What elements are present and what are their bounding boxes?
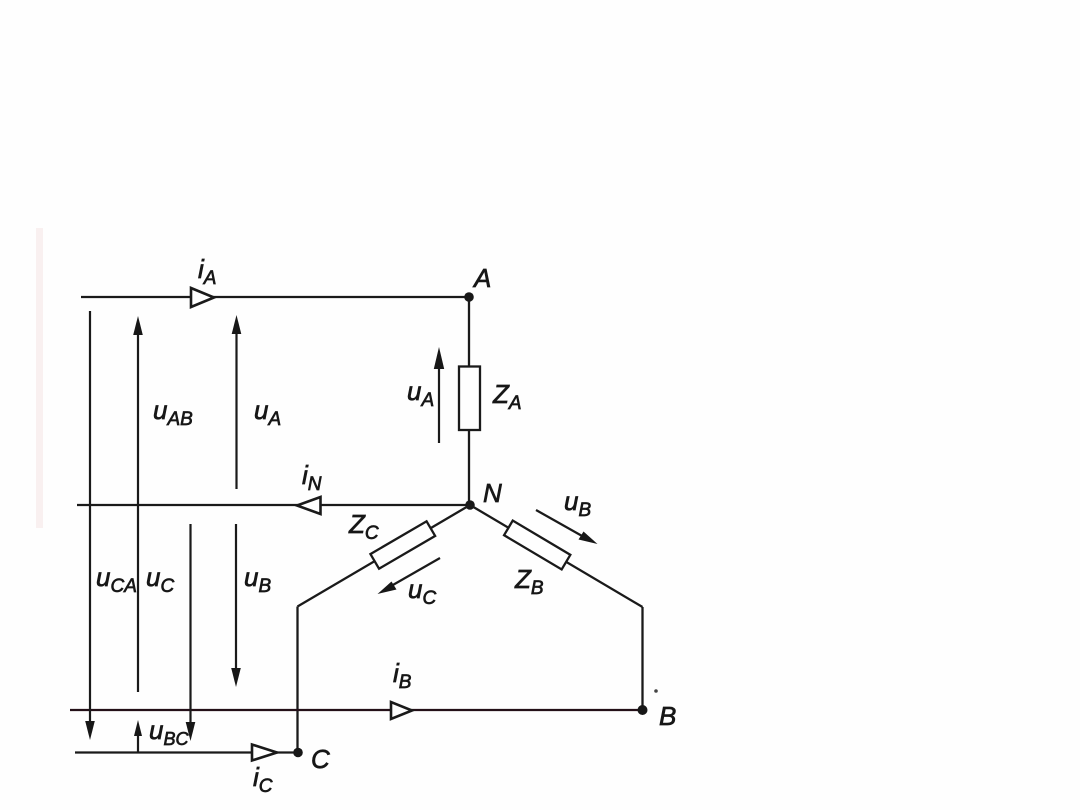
wire neutral horizontal [77, 504, 470, 506]
current arrow i_N [297, 497, 321, 514]
wire N to Z_C (diagonal) [298, 505, 471, 607]
svg-text:A: A [472, 263, 491, 293]
voltage arrow u_A (branch) [434, 347, 444, 443]
svg-text:ZC: ZC [348, 509, 379, 544]
wire N to Z_B (diagonal) [470, 505, 643, 607]
node C [293, 748, 303, 758]
current arrow i_B [391, 702, 412, 719]
speck above B [654, 689, 658, 693]
node N [465, 500, 475, 510]
scan smudge left margin [36, 228, 43, 528]
wire Z_A to N [468, 430, 470, 505]
wire Z_B corner to node B (vertical) [641, 607, 643, 710]
voltage arrow u_C (tall, down) [186, 524, 196, 741]
node B [638, 705, 648, 715]
svg-text:uC: uC [408, 574, 436, 609]
svg-text:uA: uA [254, 395, 281, 430]
svg-text:iC: iC [253, 762, 273, 797]
wire A to Z_A [468, 297, 470, 370]
svg-text:B: B [659, 701, 676, 731]
voltage arrow u_AB (tall, up) [133, 316, 143, 692]
wire Z_C corner to node C (vertical) [296, 607, 298, 753]
svg-text:ZA: ZA [492, 379, 522, 414]
svg-text:uC: uC [146, 562, 174, 597]
voltage arrow u_C (branch diagonal) [378, 558, 441, 594]
wire phase A horizontal [81, 296, 469, 298]
voltage arrow u_BC (short, up) [134, 720, 142, 753]
current arrow i_A [191, 288, 214, 307]
voltage arrow u_B (tall, down) [231, 524, 241, 687]
wire phase B horizontal [70, 709, 643, 711]
svg-text:uBC: uBC [149, 715, 189, 749]
svg-text:uB: uB [244, 562, 271, 597]
svg-text:uCA: uCA [96, 562, 137, 597]
svg-text:ZB: ZB [514, 564, 544, 599]
svg-text:uB: uB [564, 486, 591, 521]
impedance Z_C [370, 521, 435, 568]
voltage arrow u_A (tall, up) [232, 315, 242, 489]
wire phase C horizontal [75, 751, 298, 753]
svg-text:iB: iB [393, 658, 412, 693]
svg-text:C: C [311, 744, 330, 774]
node A [464, 292, 474, 302]
voltage arrow u_B (branch diagonal) [536, 510, 598, 544]
resistor Z_A [459, 367, 480, 431]
svg-text:uA: uA [407, 376, 434, 411]
svg-text:iN: iN [302, 460, 322, 495]
svg-text:uAB: uAB [153, 395, 193, 430]
voltage arrow u_CA (tall, down) [85, 311, 95, 740]
svg-text:iA: iA [198, 254, 216, 289]
svg-text:N: N [483, 478, 502, 508]
impedance Z_B [504, 521, 570, 570]
current arrow i_C [252, 745, 277, 761]
